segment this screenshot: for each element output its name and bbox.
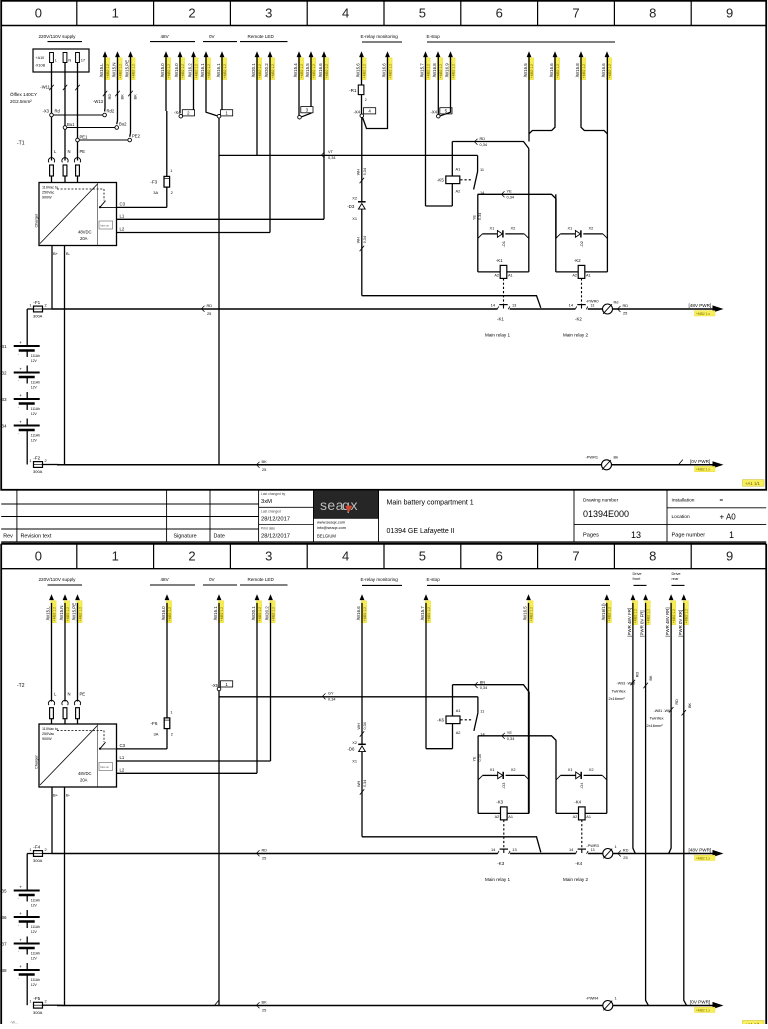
- svg-text:A2: A2: [494, 273, 499, 277]
- svg-text:-K3: -K3: [496, 800, 503, 805]
- svg-text:/W15.L: /W15.L: [46, 606, 51, 620]
- svg-text:25: 25: [623, 311, 627, 316]
- svg-text:1: 1: [112, 549, 119, 564]
- diode D6: [347, 744, 365, 751]
- svg-text:0,34: 0,34: [363, 168, 367, 175]
- svg-text:Twinflex: Twinflex: [612, 689, 626, 694]
- svg-text:2: 2: [188, 5, 195, 20]
- svg-text:A2: A2: [495, 815, 500, 819]
- svg-text:Ölflex 140CY: Ölflex 140CY: [10, 91, 37, 97]
- svg-text:+MB2 1.2: +MB2 1.2: [608, 64, 612, 78]
- svg-text:-PWR4: -PWR4: [586, 995, 599, 1000]
- wire PWR 0V FR to 0V rail: [646, 603, 649, 1006]
- svg-text:+MB2 1.2: +MB2 1.2: [388, 64, 392, 78]
- svg-text:[PWR 48V FR]: [PWR 48V FR]: [627, 608, 632, 637]
- svg-text:+MB2 1.2: +MB2 1.2: [634, 609, 638, 623]
- svg-text:13: 13: [631, 530, 641, 540]
- svg-text:+MB2 1.2: +MB2 1.2: [363, 607, 367, 621]
- svg-text:25: 25: [623, 855, 627, 860]
- svg-text:+MB2 1.2: +MB2 1.2: [362, 64, 366, 78]
- svg-text:20A: 20A: [80, 236, 88, 241]
- supply arrows /W15: [99, 51, 135, 79]
- svg-text:+: +: [19, 340, 22, 345]
- 0V arrows: [200, 51, 227, 79]
- svg-text:-K6: -K6: [437, 717, 444, 722]
- svg-text:PE2: PE2: [132, 134, 141, 139]
- svg-text:-B6: -B6: [0, 915, 7, 920]
- svg-text:2: 2: [45, 458, 47, 463]
- wire PWR 0V RR to 0V rail: [684, 603, 687, 1006]
- svg-text:111Ah: 111Ah: [31, 381, 40, 385]
- battery B5: [0, 884, 40, 908]
- svg-text:1: 1: [29, 999, 31, 1004]
- wire WH to diode D3: [352, 118, 367, 202]
- wire battery chain left: [27, 309, 33, 339]
- svg-text:/W15.N: /W15.N: [112, 63, 117, 78]
- svg-text:/W16/1(): /W16/1(): [601, 603, 606, 620]
- svg-text:2: 2: [171, 732, 173, 737]
- svg-text:x: x: [351, 497, 358, 513]
- svg-text:-B8: -B8: [0, 968, 7, 973]
- svg-text:A1: A1: [586, 273, 591, 277]
- title block installation location page number: [667, 497, 766, 540]
- svg-text:111Ah: 111Ah: [31, 354, 40, 358]
- page 2 column ruler: [35, 544, 733, 569]
- wire W13 drops to -X3: [105, 57, 131, 137]
- wire B- from charger to 0V rail: [43, 246, 65, 465]
- svg-text:7: 7: [572, 549, 579, 564]
- wire battery chain to F2: [26, 437, 28, 465]
- page2 E-stop arrow 2: [523, 594, 534, 813]
- svg-text:/W20.2: /W20.2: [264, 63, 269, 77]
- group header Remote LED: [240, 34, 288, 42]
- terminal -X3: [42, 109, 140, 142]
- svg-text:5: 5: [419, 5, 426, 20]
- svg-text:2G2.5mm²: 2G2.5mm²: [10, 99, 32, 104]
- terminal -X4:4: [353, 57, 387, 129]
- group header E-relay monitoring: [361, 34, 403, 42]
- svg-text:C3: C3: [120, 743, 126, 748]
- svg-text:RD: RD: [480, 136, 486, 141]
- diode D4: [576, 772, 584, 789]
- svg-text:N: N: [68, 691, 71, 696]
- svg-text:0: 0: [35, 5, 42, 20]
- svg-text:WH: WH: [357, 781, 361, 787]
- svg-text:Location: Location: [672, 514, 690, 520]
- wire YE 0,34 to D2 branch: [478, 189, 556, 239]
- svg-text:/W16.0: /W16.0: [174, 63, 179, 77]
- svg-text:WH: WH: [357, 723, 361, 729]
- svg-text:1: 1: [170, 168, 172, 173]
- svg-text:/W16.9: /W16.9: [445, 63, 450, 77]
- fuse F2 300A: [29, 455, 46, 474]
- svg-text:Page number: Page number: [672, 533, 706, 539]
- svg-text:-: -: [18, 379, 19, 383]
- page2 wire battery chain to F5: [26, 981, 28, 1005]
- svg-text:11: 11: [480, 167, 484, 172]
- svg-text:0,34: 0,34: [363, 236, 367, 243]
- svg-text:YE: YE: [507, 730, 513, 735]
- svg-text:Rd: Rd: [55, 109, 61, 114]
- svg-text:Rev: Rev: [3, 534, 13, 540]
- svg-text:/W16.1: /W16.1: [216, 63, 221, 77]
- terminal -X4:2: [166, 57, 195, 118]
- page2 wire L2: [117, 768, 258, 774]
- svg-text:28/12/2017: 28/12/2017: [261, 534, 290, 540]
- svg-text:+MB2 1.2: +MB2 1.2: [672, 609, 676, 623]
- svg-text:-X4: -X4: [174, 110, 181, 115]
- svg-text:-D4: -D4: [579, 782, 584, 789]
- svg-text:-: -: [18, 897, 19, 901]
- svg-text:C3: C3: [120, 202, 126, 207]
- svg-text:1: 1: [29, 458, 31, 463]
- svg-text:RD: RD: [636, 672, 640, 678]
- svg-text:+MB2 1.2: +MB2 1.2: [66, 607, 70, 621]
- wire L N PE from supply box to T1: [49, 63, 80, 161]
- svg-text:/W16.1: /W16.1: [200, 63, 205, 77]
- svg-text:6: 6: [496, 5, 503, 20]
- svg-text:+MB2 1.2: +MB2 1.2: [646, 609, 650, 623]
- svg-text:0V: 0V: [209, 34, 216, 39]
- svg-text:BK: BK: [688, 702, 692, 707]
- wire C3 from charger to F3: [117, 187, 167, 207]
- svg-text:/W15.L: /W15.L: [99, 63, 104, 77]
- svg-text:Charger: Charger: [35, 755, 39, 769]
- svg-text:X2: X2: [352, 740, 357, 745]
- title block dates column: [259, 490, 314, 542]
- svg-text:-X5: -X5: [211, 683, 218, 688]
- svg-text:01394 GE Lafayette II: 01394 GE Lafayette II: [387, 528, 455, 535]
- svg-text:Revision text: Revision text: [21, 534, 52, 540]
- svg-text:12V: 12V: [31, 957, 38, 961]
- net arrow 48V PWR page2: [689, 847, 724, 860]
- svg-text:X2: X2: [511, 226, 516, 231]
- svg-text:1: 1: [615, 995, 617, 1000]
- transformer input fuses -T1: [17, 141, 85, 183]
- svg-text:1: 1: [112, 5, 119, 20]
- svg-text:+: +: [19, 964, 22, 969]
- svg-text:-B1: -B1: [0, 344, 7, 349]
- terminal 0V junction 1: [206, 57, 233, 118]
- svg-text:-B7: -B7: [0, 941, 7, 946]
- page2 drive rear arrows: [665, 594, 689, 636]
- svg-text:B-: B-: [66, 793, 71, 798]
- svg-text:+: +: [19, 885, 22, 890]
- svg-text:3A: 3A: [153, 190, 158, 195]
- svg-text:Date: Date: [214, 534, 225, 540]
- svg-text:0,34: 0,34: [507, 736, 515, 741]
- svg-text:+MB2 1.2: +MB2 1.2: [220, 607, 224, 621]
- svg-text:9: 9: [726, 549, 733, 564]
- 48V power rail page2: [52, 847, 713, 860]
- svg-text:A1: A1: [508, 815, 513, 819]
- svg-text:-X10B: -X10B: [35, 64, 46, 68]
- svg-text:-F1: -F1: [33, 300, 40, 305]
- relay K6 coil: [426, 685, 472, 749]
- svg-text:X2: X2: [352, 195, 357, 200]
- svg-text:fans on: fans on: [101, 765, 110, 769]
- svg-text:X1: X1: [490, 767, 495, 772]
- terminal -PWR3: [586, 843, 628, 860]
- svg-text:WH: WH: [357, 237, 361, 243]
- svg-text:-K2: -K2: [575, 316, 582, 321]
- svg-text:BK: BK: [262, 999, 268, 1004]
- svg-text:48V: 48V: [161, 577, 170, 582]
- svg-text:X2: X2: [511, 767, 516, 772]
- svg-text:GY: GY: [328, 691, 334, 696]
- svg-text:-B3: -B3: [0, 397, 7, 402]
- svg-text:Main relay 1: Main relay 1: [485, 877, 510, 882]
- page2 supply arrows: [46, 594, 83, 622]
- svg-text:/W16.6: /W16.6: [382, 63, 387, 77]
- svg-text:3xM: 3xM: [261, 499, 272, 505]
- page2 header Drive front: [633, 571, 647, 585]
- svg-text:1: 1: [170, 710, 172, 715]
- svg-text:-F5: -F5: [33, 996, 40, 1001]
- company logo seaqx: [314, 490, 379, 542]
- svg-text:25: 25: [262, 467, 266, 472]
- svg-text:12V: 12V: [31, 412, 38, 416]
- svg-text:-X4: -X4: [430, 109, 437, 114]
- svg-text:0,34: 0,34: [478, 213, 482, 220]
- svg-text:110Vac to: 110Vac to: [42, 727, 58, 731]
- svg-text:[PWR 0V FR]: [PWR 0V FR]: [640, 610, 645, 636]
- svg-text:-: -: [18, 405, 19, 409]
- svg-text:2: 2: [45, 847, 47, 852]
- page2 wire YE to D4 branch: [478, 730, 556, 780]
- E-stop arrows group C: [575, 51, 612, 234]
- svg-text:+MB2 1.2: +MB2 1.2: [608, 607, 612, 621]
- svg-text:YE: YE: [473, 215, 477, 220]
- svg-text:2: 2: [45, 302, 47, 307]
- svg-text:L1: L1: [120, 755, 125, 760]
- net arrow 0V PWR page2: [690, 1000, 724, 1013]
- svg-text:17: 17: [81, 58, 86, 63]
- svg-text:Last changed by: Last changed by: [261, 492, 286, 496]
- svg-text:Bu1: Bu1: [67, 122, 75, 127]
- svg-text:25: 25: [262, 856, 266, 861]
- svg-text:/W15.PE: /W15.PE: [125, 60, 130, 77]
- svg-text:A2: A2: [456, 189, 461, 194]
- page2 header Drive rear: [672, 571, 685, 585]
- net arrow 0V PWR page1: [690, 459, 724, 472]
- svg-text:+MB2 1.2: +MB2 1.2: [181, 64, 185, 78]
- svg-text:/W16.6: /W16.6: [601, 63, 606, 77]
- svg-text:+MB2 1.2: +MB2 1.2: [451, 64, 455, 78]
- Remote LED arrows trio: [293, 51, 329, 79]
- svg-text:-T1: -T1: [17, 141, 25, 147]
- page2 E-stop arrow 3: [601, 594, 612, 813]
- svg-text:/W15.0: /W15.0: [160, 63, 165, 77]
- svg-text:6: 6: [496, 549, 503, 564]
- relay K3 coil: [495, 800, 513, 849]
- page2 wire L1: [117, 755, 271, 761]
- svg-text:25: 25: [207, 311, 211, 316]
- svg-text:0V: 0V: [209, 577, 216, 582]
- svg-text:-D3: -D3: [347, 204, 355, 209]
- svg-text:Charger: Charger: [35, 213, 39, 227]
- svg-text:/W15.7: /W15.7: [420, 606, 425, 620]
- charger T2: [35, 724, 117, 787]
- svg-text:[48V PWR]: [48V PWR]: [689, 847, 712, 852]
- svg-text:B-: B-: [66, 251, 71, 256]
- group header 48V: [150, 34, 195, 42]
- wire E-stop 1 to K5 loop: [425, 57, 427, 207]
- svg-text:01394E000: 01394E000: [583, 509, 629, 519]
- svg-text:0,34: 0,34: [507, 194, 515, 199]
- svg-text:3: 3: [265, 5, 272, 20]
- svg-text:-X4: -X4: [353, 109, 360, 114]
- svg-text:4: 4: [342, 549, 349, 564]
- svg-text:7: 7: [572, 5, 579, 20]
- svg-text:/W16.2: /W16.2: [188, 63, 193, 77]
- svg-text:+: +: [19, 367, 22, 372]
- terminal -PWR1: [586, 455, 619, 470]
- svg-text:-D6: -D6: [347, 747, 355, 752]
- svg-text:Main relay 1: Main relay 1: [485, 332, 510, 337]
- diode box D2 with relay K2: [556, 194, 608, 272]
- svg-text:+MB2 1.2: +MB2 1.2: [168, 607, 172, 621]
- fuse F6 3A: [151, 710, 173, 737]
- page2 wire C3 from charger to F6: [117, 729, 168, 749]
- svg-text:L1: L1: [120, 214, 125, 219]
- svg-text:/W16.6: /W16.6: [356, 606, 361, 620]
- svg-text:Main battery compartment 1: Main battery compartment 1: [387, 499, 474, 506]
- svg-text:front: front: [633, 576, 642, 581]
- svg-text:13: 13: [512, 847, 516, 852]
- svg-text:28/12/2017: 28/12/2017: [261, 516, 290, 522]
- svg-text:www.seaqx.com: www.seaqx.com: [317, 519, 345, 524]
- svg-text:+MB2 1.2: +MB2 1.2: [529, 607, 533, 621]
- svg-text:8: 8: [649, 5, 656, 20]
- svg-text:X1: X1: [568, 226, 573, 231]
- svg-text:+MB2 1.2: +MB2 1.2: [427, 607, 431, 621]
- svg-text:BK: BK: [133, 94, 138, 100]
- svg-text:PE1: PE1: [80, 135, 89, 140]
- battery B8: [0, 963, 40, 987]
- svg-text:+MB2 1.x: +MB2 1.x: [696, 312, 710, 316]
- svg-text:E-stop: E-stop: [427, 577, 441, 582]
- svg-text:/W15.N: /W15.N: [59, 606, 64, 621]
- E-stop arrows group A: [420, 51, 456, 79]
- Remote LED arrows pair: [251, 51, 275, 79]
- svg-text:0: 0: [35, 549, 42, 564]
- svg-text:-K4: -K4: [574, 800, 581, 805]
- svg-text:-K2: -K2: [574, 258, 581, 263]
- battery B6: [0, 910, 40, 934]
- svg-text:A2: A2: [572, 273, 577, 277]
- svg-text:A1: A1: [456, 167, 461, 172]
- svg-text:111Ah: 111Ah: [31, 899, 40, 903]
- svg-text:Main relay 2: Main relay 2: [563, 877, 588, 882]
- svg-text:+: +: [19, 911, 22, 916]
- svg-text:+: +: [19, 393, 22, 398]
- svg-text:/W16.6: /W16.6: [549, 63, 554, 77]
- 48V arrows /W16: [160, 51, 198, 79]
- svg-text:Rd: Rd: [614, 300, 619, 305]
- page2 wire B+ from charger: [43, 787, 71, 854]
- svg-text:A1: A1: [456, 708, 461, 713]
- svg-text:12V: 12V: [31, 359, 38, 363]
- svg-text:11: 11: [480, 709, 484, 714]
- terminal junction 3: [298, 57, 324, 220]
- svg-text:48V: 48V: [161, 34, 170, 39]
- svg-text:111Ah: 111Ah: [31, 978, 40, 982]
- svg-text:-D2: -D2: [579, 241, 584, 247]
- svg-text:RD: RD: [623, 848, 629, 853]
- svg-text:-T2: -T2: [17, 683, 25, 689]
- svg-text:+MB2 1.2: +MB2 1.2: [439, 64, 443, 78]
- charger T1: [35, 183, 117, 246]
- wire WH below D3 to 48V rail tap: [352, 209, 541, 308]
- svg-text:L2: L2: [120, 227, 125, 232]
- svg-text:B+: B+: [53, 251, 59, 256]
- fuse F3 3A: [150, 168, 172, 195]
- terminal -PWR0: [586, 298, 628, 315]
- cable -W93 Twinflex: [609, 672, 653, 702]
- svg-text:2x16mm²: 2x16mm²: [609, 696, 626, 701]
- resistor R1: [349, 57, 367, 114]
- svg-text:8: 8: [649, 549, 656, 564]
- svg-text:+MB2 1.x: +MB2 1.x: [696, 856, 710, 860]
- svg-text:111Ah: 111Ah: [31, 407, 40, 411]
- svg-text:Bu2: Bu2: [119, 122, 127, 127]
- page2 wire below D6 to rail tap: [352, 752, 541, 853]
- relay contact K4: [569, 847, 588, 866]
- svg-text:A1: A1: [508, 273, 513, 277]
- svg-text:+MB2 1.2: +MB2 1.2: [582, 64, 586, 78]
- svg-text:0,34: 0,34: [363, 722, 367, 729]
- svg-text:/W20.1: /W20.1: [251, 606, 256, 620]
- svg-text:+A1 1/1: +A1 1/1: [745, 481, 761, 486]
- supply box -X10B: [33, 49, 89, 72]
- svg-text:-: -: [18, 923, 19, 927]
- svg-text:rear: rear: [672, 576, 680, 581]
- svg-text:YE: YE: [507, 189, 513, 194]
- page2 header Remote LED: [240, 577, 288, 585]
- title block drawing number: [574, 490, 766, 542]
- svg-text:0,34: 0,34: [480, 142, 488, 147]
- svg-text:/W16.5: /W16.5: [523, 63, 528, 77]
- page 2 border frame: [1, 544, 766, 1024]
- svg-text:13: 13: [512, 302, 516, 307]
- svg-text:+MB2 1.2: +MB2 1.2: [530, 64, 534, 78]
- diode box D3 with relay K3: [478, 692, 529, 814]
- svg-text:/W16.8: /W16.8: [432, 63, 437, 77]
- page2 drive front arrows: [627, 594, 651, 636]
- svg-text:900W: 900W: [42, 737, 52, 741]
- svg-text:-: -: [18, 432, 19, 436]
- wire GY 0,34 sense line: [219, 691, 478, 702]
- svg-text:48VDC: 48VDC: [78, 771, 92, 776]
- svg-text:+MB2 1.2: +MB2 1.2: [325, 64, 329, 78]
- page2 wire YE to D3 branch: [473, 736, 483, 780]
- svg-text:4: 4: [342, 5, 349, 20]
- 48V power rail page1: [52, 303, 713, 316]
- svg-text:+MB2 1.2: +MB2 1.2: [312, 64, 316, 78]
- svg-text:+MB2 1.2: +MB2 1.2: [271, 607, 275, 621]
- wire RD 0,34 from K5 A1: [452, 136, 529, 149]
- relay K1 coil: [494, 258, 512, 304]
- svg-text:L2: L2: [120, 768, 125, 773]
- svg-text:Print date: Print date: [261, 527, 275, 531]
- battery B3: [0, 392, 40, 416]
- diode box D1 with relay K1: [478, 149, 529, 272]
- svg-text:PE: PE: [80, 691, 86, 696]
- svg-text:N: N: [68, 149, 71, 154]
- svg-text:RD: RD: [107, 94, 112, 100]
- svg-text:-K5: -K5: [437, 177, 444, 182]
